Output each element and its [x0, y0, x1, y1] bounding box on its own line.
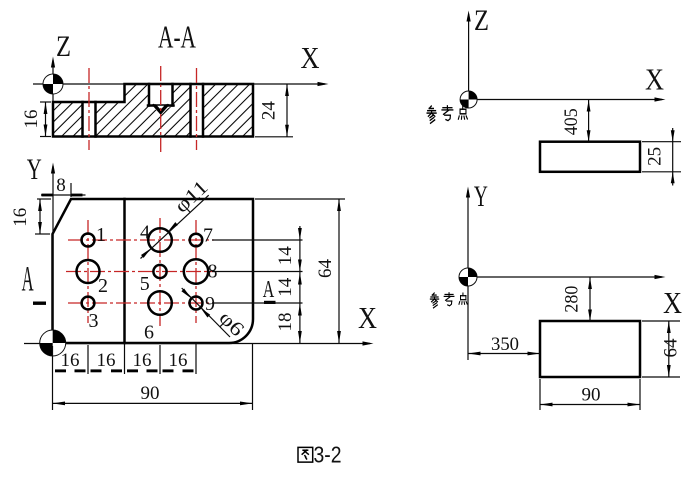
- Z axis: [468, 14, 470, 100]
- X axis: [24, 343, 370, 345]
- svg-text:X: X: [358, 300, 377, 335]
- dim 8 (top chamfer width): [41, 175, 86, 197]
- X axis: [468, 276, 662, 278]
- hole 5: [153, 265, 166, 278]
- svg-text:Y: Y: [474, 180, 488, 213]
- svg-text:14: 14: [275, 277, 296, 297]
- origin datum symbol: [43, 74, 63, 94]
- Y axis: [52, 166, 54, 343]
- svg-text:4: 4: [140, 222, 150, 244]
- workpiece rectangle (side view): [540, 142, 640, 172]
- dim 64 (right overall): [255, 199, 345, 343]
- svg-text:X: X: [645, 62, 664, 97]
- svg-text:90: 90: [141, 383, 160, 404]
- svg-text:A: A: [22, 259, 34, 299]
- X axis: [33, 83, 325, 85]
- leader phi11: [141, 195, 209, 258]
- svg-text:280: 280: [561, 286, 582, 313]
- Y axis: [467, 190, 469, 277]
- svg-text:7: 7: [203, 225, 213, 247]
- counterbore bottom ledges: [148, 104, 155, 107]
- hole 9: [190, 297, 203, 310]
- svg-text:64: 64: [315, 259, 336, 279]
- dim 64: [642, 321, 682, 377]
- dim 90: [53, 344, 253, 410]
- svg-text:X: X: [663, 285, 682, 320]
- svg-text:6: 6: [144, 322, 154, 344]
- right dim stack extension lines: [212, 239, 303, 241]
- section outline: [53, 84, 253, 137]
- centerline col1: [88, 68, 90, 150]
- hole 8: [184, 259, 208, 283]
- dim 14 / 14 / 18 line: [275, 226, 302, 343]
- label 参考点: [427, 106, 467, 123]
- step edge: [123, 199, 126, 343]
- centerline col2: [159, 218, 161, 326]
- hole wall (col1 through hole): [81, 102, 84, 137]
- svg-text:18: 18: [275, 313, 296, 332]
- svg-text:5: 5: [140, 273, 150, 295]
- svg-text:16: 16: [133, 350, 152, 371]
- hole 3: [82, 297, 95, 310]
- svg-text:Z: Z: [56, 30, 71, 63]
- svg-text:Z: Z: [474, 4, 489, 37]
- centerline row2: [66, 271, 215, 273]
- svg-text:16: 16: [97, 350, 116, 371]
- hole 2: [77, 260, 100, 283]
- dim 16 (left chamfer height): [10, 199, 51, 234]
- svg-text:16: 16: [169, 350, 188, 371]
- origin datum symbol: [40, 330, 66, 356]
- svg-text:A-A: A-A: [158, 19, 196, 55]
- centerline row3: [68, 302, 214, 304]
- centerline col3: [195, 220, 197, 323]
- character 图: [298, 447, 313, 462]
- hole 7: [190, 234, 203, 247]
- svg-text:14: 14: [275, 246, 296, 265]
- svg-text:3-2: 3-2: [314, 442, 342, 468]
- svg-text:16: 16: [61, 350, 80, 371]
- svg-text:24: 24: [259, 101, 280, 121]
- hole 6: [148, 291, 172, 315]
- hole 1: [82, 234, 95, 247]
- X axis: [469, 99, 662, 101]
- svg-text:64: 64: [661, 338, 682, 358]
- hole wall (col3 through hole): [189, 84, 192, 137]
- svg-text:8: 8: [56, 175, 66, 196]
- Z axis: [52, 60, 54, 102]
- dim 16x4 arrows: [55, 350, 194, 372]
- svg-text:405: 405: [561, 108, 582, 135]
- centerline col2: [160, 66, 162, 152]
- svg-text:350: 350: [491, 334, 519, 355]
- svg-text:1: 1: [96, 224, 106, 246]
- drill point V (filled): [152, 104, 169, 113]
- dim 405: [561, 100, 591, 142]
- counterbore walls (col2): [148, 84, 151, 106]
- dim 16 (left of section): [21, 102, 51, 137]
- svg-text:16: 16: [21, 110, 42, 129]
- reference point datum symbol: [459, 268, 477, 286]
- bottom tick extension lines: [87, 345, 89, 374]
- hatching: [53, 84, 253, 137]
- dim 350: [468, 286, 540, 360]
- leader phi6: [182, 288, 230, 337]
- dim 24 (right of section): [255, 84, 293, 137]
- svg-text:90: 90: [582, 385, 601, 406]
- dim 90: [540, 379, 640, 410]
- svg-text:A: A: [263, 277, 275, 303]
- workpiece rectangle (top view): [540, 321, 640, 377]
- dim 280: [561, 277, 592, 321]
- centerline col1: [87, 220, 89, 323]
- dim 25: [642, 128, 681, 186]
- plate outline with chamfer and fillet: [53, 199, 254, 343]
- svg-text:Y: Y: [27, 153, 42, 186]
- svg-text:9: 9: [205, 293, 215, 315]
- svg-text:16: 16: [10, 208, 31, 227]
- svg-text:X: X: [301, 40, 320, 75]
- reference point datum symbol: [460, 91, 477, 108]
- centerline col3: [196, 68, 198, 150]
- hole 4: [148, 228, 172, 252]
- svg-text:25: 25: [645, 147, 666, 166]
- svg-text:3: 3: [89, 310, 99, 332]
- label 参考点: [430, 293, 467, 308]
- svg-text:2: 2: [98, 275, 108, 297]
- centerline row1: [68, 239, 214, 241]
